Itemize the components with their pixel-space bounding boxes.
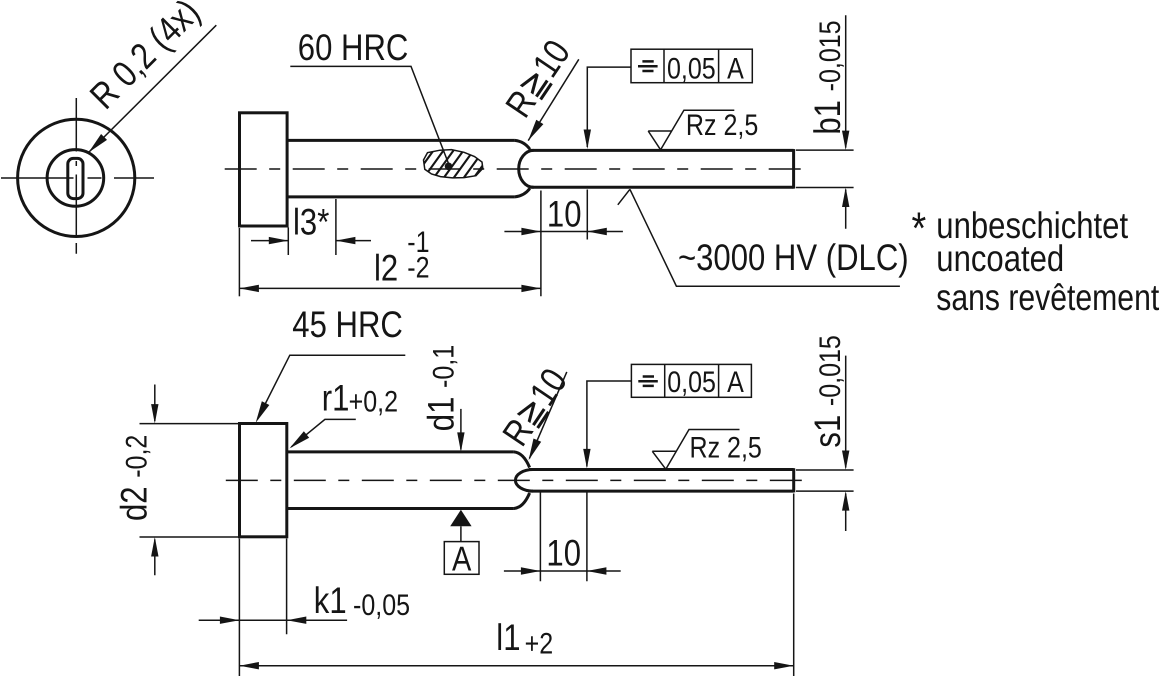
datum triangle bbox=[450, 510, 471, 527]
k1 extension lines bbox=[239, 539, 286, 676]
svg-text:A: A bbox=[727, 53, 744, 86]
blade top edge bottom view bbox=[529, 468, 794, 471]
s1 extension lines bbox=[796, 470, 854, 491]
k1 dimension line bbox=[199, 619, 347, 621]
shaft end bulb bottom view bbox=[515, 470, 533, 492]
svg-text:r1: r1 bbox=[322, 378, 350, 419]
surface finish symbol top bbox=[648, 110, 734, 150]
outer circle (head diameter) bbox=[18, 119, 135, 236]
symmetry symbol bottom bbox=[638, 377, 658, 386]
shaft top edge bottom view bbox=[287, 450, 514, 453]
svg-text:60 HRC: 60 HRC bbox=[298, 27, 409, 68]
l3 dimension line bbox=[251, 240, 371, 242]
svg-text:Rz 2,5: Rz 2,5 bbox=[690, 431, 762, 464]
horizontal centerline bbox=[1, 177, 154, 179]
b1 dimension line bbox=[845, 15, 847, 229]
head outline bottom bbox=[240, 424, 287, 537]
s1 dimension line bbox=[845, 356, 847, 531]
svg-text:10: 10 bbox=[547, 193, 582, 234]
leader R 0,2 bbox=[89, 25, 217, 152]
svg-text:d1 -0,1: d1 -0,1 bbox=[420, 345, 461, 431]
surface finish symbol bottom bbox=[652, 430, 739, 470]
svg-text:l3*: l3* bbox=[293, 202, 329, 243]
blade bottom edge bbox=[529, 186, 794, 189]
FCF leader bottom bbox=[587, 381, 632, 467]
svg-text:A: A bbox=[452, 541, 471, 579]
leader 45 HRC bbox=[258, 355, 406, 419]
svg-text:-2: -2 bbox=[407, 252, 429, 285]
shaft bottom edge bottom view bbox=[287, 507, 514, 510]
neck fillet bottom bbox=[515, 189, 530, 197]
svg-text:-0,05: -0,05 bbox=[353, 589, 410, 622]
leader R>=10 top bbox=[528, 59, 579, 140]
blade slot bbox=[68, 158, 83, 198]
hardness hatch blob bbox=[424, 150, 483, 178]
svg-text:45 HRC: 45 HRC bbox=[292, 304, 403, 345]
symmetry symbol bbox=[638, 61, 658, 71]
d2 extension lines bbox=[140, 424, 241, 537]
svg-text:Rz 2,5: Rz 2,5 bbox=[686, 109, 758, 142]
svg-text:s1 -0,015: s1 -0,015 bbox=[807, 335, 848, 447]
b1 extension lines bbox=[796, 150, 854, 187]
blade end edge bottom view bbox=[792, 468, 795, 492]
datum box bbox=[444, 542, 479, 575]
neck fillet top bottom view bbox=[514, 452, 530, 468]
leader R>=10 bottom bbox=[529, 372, 566, 459]
svg-text:*: * bbox=[912, 203, 927, 254]
svg-text:l1: l1 bbox=[496, 617, 520, 658]
d1 dimension arrow bbox=[460, 409, 462, 450]
leader 60 HRC bbox=[290, 66, 448, 163]
centerline top view bbox=[225, 168, 805, 170]
vertical centerline bbox=[75, 98, 77, 254]
shaft bottom edge bbox=[287, 195, 515, 198]
shaft top edge bbox=[287, 139, 515, 142]
svg-text:+2: +2 bbox=[525, 628, 554, 661]
svg-text:R≧10: R≧10 bbox=[495, 361, 575, 453]
svg-text:A: A bbox=[727, 366, 744, 399]
svg-text:~3000 HV (DLC): ~3000 HV (DLC) bbox=[678, 237, 909, 278]
dim 10 bottom extension lines bbox=[540, 493, 587, 582]
neck fillet bottom bottom view bbox=[514, 493, 530, 509]
svg-text:+0,2: +0,2 bbox=[349, 386, 398, 419]
d2 dimension line bbox=[154, 385, 156, 576]
svg-text:d2 -0,2: d2 -0,2 bbox=[113, 435, 154, 521]
dim 10 top line bbox=[504, 231, 623, 233]
l3 extension lines bbox=[288, 199, 336, 255]
svg-text:uncoated: uncoated bbox=[936, 238, 1064, 279]
feature control frame bottom bbox=[631, 364, 751, 397]
dim 10 bottom line bbox=[504, 570, 621, 572]
svg-text:0,05: 0,05 bbox=[667, 53, 716, 86]
l2 extension line left bbox=[238, 228, 240, 296]
inner circle (shaft diameter) bbox=[47, 150, 104, 207]
feature control frame top bbox=[631, 49, 752, 82]
head outline bbox=[240, 113, 288, 226]
l2 dimension line bbox=[239, 287, 541, 289]
svg-text:10: 10 bbox=[546, 533, 581, 574]
leader dot bbox=[445, 163, 453, 171]
leader r1 bbox=[291, 419, 356, 447]
dim 10 top extension lines bbox=[541, 190, 587, 297]
l1 dimension line bbox=[239, 665, 793, 667]
svg-text:0,05: 0,05 bbox=[667, 366, 716, 399]
svg-text:k1: k1 bbox=[314, 580, 347, 621]
svg-text:sans revêtement: sans revêtement bbox=[936, 277, 1160, 318]
neck fillet top bbox=[515, 140, 530, 149]
blade bottom edge bottom view bbox=[529, 490, 794, 493]
FCF leader top bbox=[587, 67, 631, 147]
l1 extension line right bbox=[793, 494, 795, 676]
leader ~3000 HV bbox=[618, 189, 900, 286]
datum stem bbox=[460, 526, 462, 541]
blade end edge bbox=[792, 149, 795, 189]
blade top edge bbox=[529, 149, 794, 152]
svg-text:b1 -0,015: b1 -0,015 bbox=[807, 20, 848, 134]
svg-text:l2: l2 bbox=[374, 247, 398, 288]
centerline bottom view bbox=[226, 479, 805, 481]
svg-text:R 0,2 (4x): R 0,2 (4x) bbox=[82, 0, 207, 117]
shaft end bulb bbox=[519, 150, 534, 187]
